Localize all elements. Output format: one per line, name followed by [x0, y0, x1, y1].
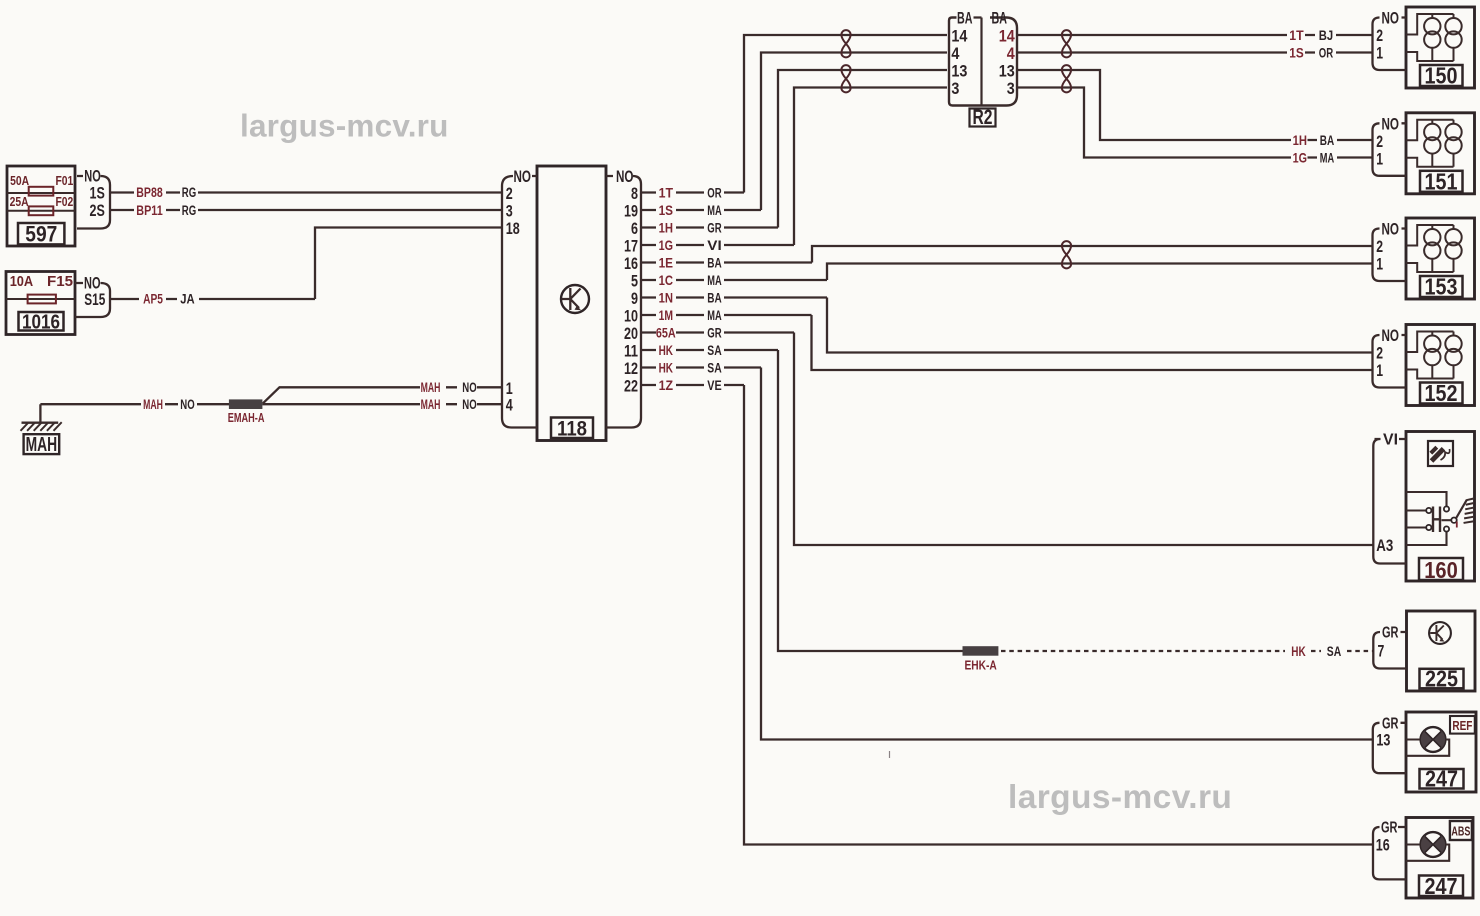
svg-text:1T: 1T: [1289, 28, 1304, 43]
svg-text:13: 13: [999, 61, 1015, 80]
svg-text:118: 118: [557, 417, 587, 441]
svg-text:NO: NO: [180, 397, 194, 412]
svg-text:3: 3: [506, 202, 513, 221]
svg-text:GR: GR: [707, 325, 722, 340]
svg-text:RG: RG: [182, 203, 196, 218]
svg-text:RG: RG: [182, 185, 196, 200]
svg-text:16: 16: [624, 254, 638, 273]
svg-text:JA: JA: [180, 292, 195, 307]
svg-text:MAH: MAH: [26, 434, 58, 456]
svg-text:S15: S15: [84, 291, 105, 309]
svg-text:BA: BA: [992, 9, 1008, 28]
svg-text:3: 3: [1007, 79, 1015, 98]
svg-text:EMAH-A: EMAH-A: [228, 410, 265, 425]
svg-text:F01: F01: [56, 174, 74, 188]
svg-text:12: 12: [624, 359, 638, 378]
svg-text:6: 6: [631, 219, 638, 238]
svg-text:MA: MA: [707, 203, 722, 218]
svg-text:1H: 1H: [1293, 133, 1307, 148]
svg-text:SA: SA: [707, 360, 722, 375]
svg-text:14: 14: [999, 26, 1015, 45]
svg-text:1016: 1016: [22, 312, 60, 334]
svg-text:1E: 1E: [659, 255, 673, 270]
svg-text:17: 17: [624, 237, 638, 256]
svg-text:1N: 1N: [659, 290, 673, 305]
svg-text:ABS: ABS: [1451, 824, 1470, 839]
svg-text:13: 13: [951, 61, 967, 80]
svg-text:13: 13: [1376, 731, 1390, 750]
svg-text:HK: HK: [659, 360, 674, 375]
svg-text:10A: 10A: [10, 274, 34, 290]
svg-text:14: 14: [951, 26, 967, 45]
svg-text:NO: NO: [514, 168, 532, 186]
svg-text:BP11: BP11: [136, 203, 163, 218]
svg-text:largus-mcv.ru: largus-mcv.ru: [1008, 779, 1232, 816]
svg-text:4: 4: [506, 396, 513, 415]
svg-text:BA: BA: [707, 255, 722, 270]
svg-text:1Z: 1Z: [659, 378, 673, 393]
svg-text:1G: 1G: [1293, 150, 1307, 165]
svg-text:HK: HK: [1291, 644, 1306, 659]
svg-text:50A: 50A: [10, 174, 29, 188]
svg-text:18: 18: [506, 219, 520, 238]
svg-text:BA: BA: [957, 9, 973, 28]
svg-text:1H: 1H: [659, 220, 673, 235]
svg-text:5: 5: [631, 272, 638, 291]
svg-text:OR: OR: [707, 185, 722, 200]
svg-text:22: 22: [624, 377, 638, 396]
svg-text:1S: 1S: [659, 203, 673, 218]
svg-text:SA: SA: [707, 343, 722, 358]
svg-text:4: 4: [951, 44, 959, 63]
svg-text:65A: 65A: [656, 325, 676, 340]
svg-text:SA: SA: [1327, 644, 1342, 659]
svg-text:10: 10: [624, 307, 638, 326]
svg-text:150: 150: [1425, 63, 1458, 89]
svg-text:9: 9: [631, 289, 638, 308]
svg-text:153: 153: [1425, 274, 1458, 300]
svg-text:1C: 1C: [659, 273, 674, 288]
svg-text:GR: GR: [1381, 820, 1398, 837]
svg-text:4: 4: [1007, 44, 1015, 63]
svg-text:20: 20: [624, 324, 638, 343]
svg-text:2: 2: [506, 184, 513, 203]
svg-text:247: 247: [1425, 873, 1458, 899]
svg-text:MA: MA: [1320, 150, 1335, 165]
svg-text:NO: NO: [84, 168, 101, 186]
svg-text:HK: HK: [659, 343, 674, 358]
svg-text:MAH: MAH: [421, 397, 441, 412]
svg-text:AP5: AP5: [143, 292, 163, 307]
svg-text:1M: 1M: [659, 308, 673, 323]
svg-text:16: 16: [1376, 836, 1390, 855]
svg-text:151: 151: [1425, 168, 1458, 194]
svg-text:REF: REF: [1452, 718, 1472, 733]
svg-text:1T: 1T: [659, 185, 674, 200]
svg-text:11: 11: [624, 342, 638, 361]
svg-text:F02: F02: [56, 195, 74, 209]
svg-text:160: 160: [1424, 557, 1458, 583]
svg-text:NO: NO: [84, 275, 101, 293]
svg-text:BA: BA: [707, 290, 722, 305]
svg-text:A3: A3: [1376, 537, 1393, 555]
svg-text:R2: R2: [973, 106, 993, 129]
svg-text:225: 225: [1425, 666, 1458, 692]
svg-text:152: 152: [1425, 380, 1458, 406]
svg-text:BP88: BP88: [136, 185, 163, 200]
svg-text:VI: VI: [707, 238, 721, 253]
svg-text:BJ: BJ: [1319, 28, 1333, 43]
svg-text:7: 7: [1378, 642, 1385, 661]
svg-text:247: 247: [1425, 766, 1458, 792]
svg-text:OR: OR: [1319, 45, 1334, 60]
svg-text:GR: GR: [707, 220, 722, 235]
svg-text:VE: VE: [707, 378, 721, 393]
svg-text:VI: VI: [1383, 432, 1398, 449]
svg-text:8: 8: [631, 184, 638, 203]
svg-text:F15: F15: [47, 274, 73, 290]
svg-text:19: 19: [624, 202, 638, 221]
svg-text:MA: MA: [707, 308, 722, 323]
svg-text:25A: 25A: [10, 195, 29, 209]
svg-text:1G: 1G: [659, 238, 673, 253]
svg-text:EHK-A: EHK-A: [965, 658, 998, 673]
svg-text:largus-mcv.ru: largus-mcv.ru: [240, 108, 449, 144]
svg-text:1S: 1S: [1289, 45, 1303, 60]
svg-text:NO: NO: [462, 380, 476, 395]
svg-text:MA: MA: [707, 273, 722, 288]
svg-text:GR: GR: [1382, 625, 1399, 642]
svg-text:BA: BA: [1320, 133, 1335, 148]
svg-text:2S: 2S: [90, 202, 105, 220]
svg-text:MAH: MAH: [143, 397, 163, 412]
svg-text:MAH: MAH: [421, 380, 441, 395]
svg-text:3: 3: [951, 79, 959, 98]
svg-text:NO: NO: [462, 397, 476, 412]
svg-text:1S: 1S: [90, 185, 105, 203]
svg-text:597: 597: [25, 222, 57, 247]
